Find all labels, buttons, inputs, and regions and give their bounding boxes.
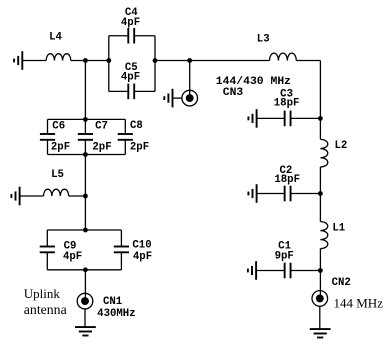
wire [319,167,321,194]
capacitor C2 [285,186,291,202]
wire [84,155,86,231]
ground (input, left of L4) [14,51,22,70]
inductor L1 [320,222,327,249]
svg-text:L1: L1 [332,222,345,234]
svg-text:4pF: 4pF [121,17,140,29]
svg-text:2pF: 2pF [51,142,70,154]
node (L5 / rail junction) [83,194,88,199]
connector CN3 [182,90,198,106]
wire [319,194,321,222]
wire [173,97,182,99]
svg-text:L3: L3 [257,34,270,46]
wire [46,252,48,270]
ground (L5 input) [11,187,19,206]
wire [257,193,285,195]
wire [84,61,86,120]
connector CN2 [312,291,328,307]
wire [84,119,86,134]
wire [22,60,46,62]
wire [47,119,49,134]
node A (L4 / C4-C5 / C6 branch junction) [83,58,88,63]
capacitor C7 [78,134,93,140]
wire [319,306,321,329]
wire [20,195,44,197]
wire [47,269,121,271]
wire [134,35,155,37]
svg-text:2pF: 2pF [92,142,111,154]
node (loop right) [153,58,158,63]
capacitor C5 [128,84,134,100]
wire [48,154,126,156]
inductor L3 [270,53,297,60]
node (loop left) [106,58,111,63]
inductor L5 [44,189,69,196]
node (box C9-C10 top junction) [83,228,88,233]
capacitor C8 [118,134,133,140]
connector CN1 [77,293,93,309]
node (box C6-C8 top junction) [83,117,88,122]
svg-text:CN2: CN2 [332,277,351,289]
wire [84,309,86,327]
node (C1 / rail junction) [318,268,323,273]
wire [124,119,126,134]
ground (C3) [248,109,256,128]
wire [120,230,122,247]
wire [120,252,122,270]
node (CN3 tap) [187,58,192,63]
wire [71,60,109,62]
svg-text:18pF: 18pF [274,174,300,186]
svg-text:L4: L4 [49,31,62,43]
ground (CN3) [164,89,172,108]
wire [108,36,110,92]
wire [134,90,155,92]
wire [319,249,321,271]
svg-text:C7: C7 [95,121,108,133]
svg-text:9pF: 9pF [275,251,294,263]
capacitor C1 [285,263,291,279]
svg-text:CN1: CN1 [103,296,122,308]
ground (CN1, uplink) [75,327,96,335]
capacitor C9 [40,247,55,253]
wire [319,271,321,298]
ground (C2) [248,184,256,203]
wire [257,117,285,119]
wire [290,117,320,119]
wire [47,140,49,155]
wire [84,270,86,300]
wire [296,60,320,62]
wire [48,118,126,120]
inductor L4 [46,54,71,61]
svg-text:2pF: 2pF [130,142,149,154]
wire [290,270,320,272]
inductor L2 [320,139,327,167]
svg-text:Uplink: Uplink [24,286,61,301]
capacitor C4 [128,28,134,44]
svg-text:4pF: 4pF [121,71,140,83]
svg-text:C8: C8 [130,120,143,132]
ground (CN2 output) [310,329,331,337]
svg-text:C10: C10 [132,240,151,252]
svg-text:CN3: CN3 [223,87,244,99]
ground (C1) [248,261,256,280]
capacitor C6 [40,134,55,140]
wire [155,60,190,62]
node (box C6-C8 bottom junction) [83,152,88,157]
wire [124,140,126,155]
svg-text:430MHz: 430MHz [97,308,135,320]
wire [189,61,191,98]
svg-text:antenna: antenna [24,302,67,317]
svg-text:18pF: 18pF [274,98,300,110]
node (C2 / rail junction) [318,191,323,196]
wire [84,140,86,155]
svg-text:4pF: 4pF [133,251,152,263]
wire [190,60,270,62]
svg-text:L5: L5 [51,169,64,181]
svg-text:144 MHz: 144 MHz [334,295,384,310]
wire [69,195,86,197]
svg-text:L2: L2 [334,140,347,152]
capacitor C10 [114,247,129,253]
wire [256,270,285,272]
wire [109,90,129,92]
node (box C9-C10 bottom junction) [83,267,88,272]
svg-text:C6: C6 [52,121,65,133]
svg-text:4pF: 4pF [63,251,82,263]
wire [47,229,121,231]
wire [290,193,320,195]
wire [46,230,48,247]
capacitor C3 [285,111,291,127]
node (C3 / rail junction) [318,116,323,121]
wire [109,35,129,37]
wire [319,61,321,140]
wire [154,36,156,92]
